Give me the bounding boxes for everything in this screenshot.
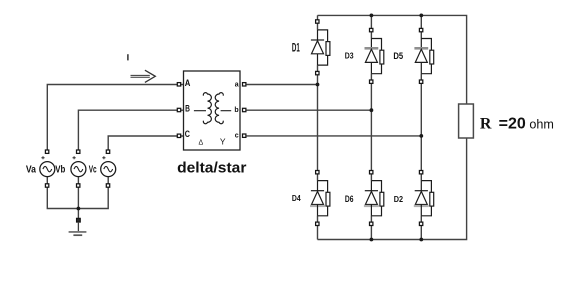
wire Vb bottom to ground — [77, 177, 79, 223]
diode D1 — [311, 20, 330, 75]
winding primary — [203, 93, 211, 124]
junction node c / leg3 — [419, 134, 423, 138]
svg-text:=20: =20 — [499, 115, 526, 132]
svg-text:Y: Y — [220, 136, 226, 146]
svg-text:D3: D3 — [345, 51, 354, 61]
wire transformer b to bridge leg 2 — [246, 109, 371, 111]
wire phase A from source Va to transformer terminal A — [47, 85, 183, 152]
svg-text:C: C — [185, 129, 191, 139]
diode D3 — [365, 28, 384, 83]
svg-text:D4: D4 — [292, 194, 301, 203]
svg-text:Vc: Vc — [89, 164, 97, 175]
svg-text:b: b — [234, 107, 238, 114]
AC source Va — [40, 150, 55, 187]
diode D6 — [364, 171, 384, 226]
junction bottom bus leg3 — [419, 238, 423, 242]
svg-text:D2: D2 — [394, 194, 404, 204]
svg-text:Δ: Δ — [199, 139, 204, 146]
wire source bottoms common bus — [47, 177, 108, 209]
svg-text:B: B — [185, 103, 190, 113]
terminal C square — [177, 134, 180, 137]
winding lead primary — [194, 110, 206, 112]
wire bridge leg 1 vertical — [317, 15, 319, 239]
wire top bus (DC+) — [318, 15, 467, 104]
wire phase B from source Vb to transformer terminal B — [78, 110, 183, 150]
terminal B square — [177, 108, 180, 111]
svg-text:R: R — [480, 115, 492, 132]
AC source Vc — [101, 150, 116, 187]
junction top bus leg2 — [370, 14, 374, 18]
wire transformer c to bridge leg 3 — [246, 135, 421, 137]
svg-text:delta/star: delta/star — [177, 161, 247, 177]
terminal a square — [243, 83, 246, 86]
wire bridge leg 2 vertical — [370, 15, 372, 239]
junction source bus — [77, 207, 81, 211]
terminal A square — [177, 83, 180, 86]
terminal c square — [243, 134, 246, 137]
terminal b square — [243, 108, 246, 111]
diode D2 — [414, 171, 434, 226]
wire bottom bus (DC-) — [318, 138, 467, 240]
svg-text:A: A — [185, 78, 191, 88]
AC source Vb — [71, 150, 86, 187]
wire phase C from source Vc to transformer terminal C — [108, 136, 183, 151]
svg-text:c: c — [235, 133, 239, 140]
svg-text:ohm: ohm — [529, 116, 554, 131]
svg-text:D5: D5 — [393, 51, 403, 61]
diode D4 — [310, 171, 330, 226]
diode D5 — [414, 28, 433, 83]
wire bridge leg 3 vertical — [420, 15, 422, 239]
winding secondary — [215, 93, 223, 124]
transformer U1 delta/star — [177, 71, 246, 150]
svg-text:Va: Va — [26, 164, 36, 175]
junction node a / leg1 — [316, 83, 320, 87]
svg-text:D1: D1 — [292, 42, 300, 54]
svg-text:D6: D6 — [345, 194, 354, 204]
junction top bus leg3 — [419, 14, 423, 18]
junction bottom bus leg2 — [370, 238, 374, 242]
resistor R load — [459, 104, 474, 138]
svg-text:Vb: Vb — [55, 164, 65, 175]
svg-text:a: a — [235, 81, 239, 88]
current arrow — [131, 70, 156, 82]
junction node b / leg2 — [370, 108, 374, 112]
winding lead secondary — [221, 110, 232, 112]
ground — [69, 218, 87, 235]
label I (current) — [127, 54, 129, 60]
wire transformer a to bridge leg 1 — [246, 84, 317, 86]
